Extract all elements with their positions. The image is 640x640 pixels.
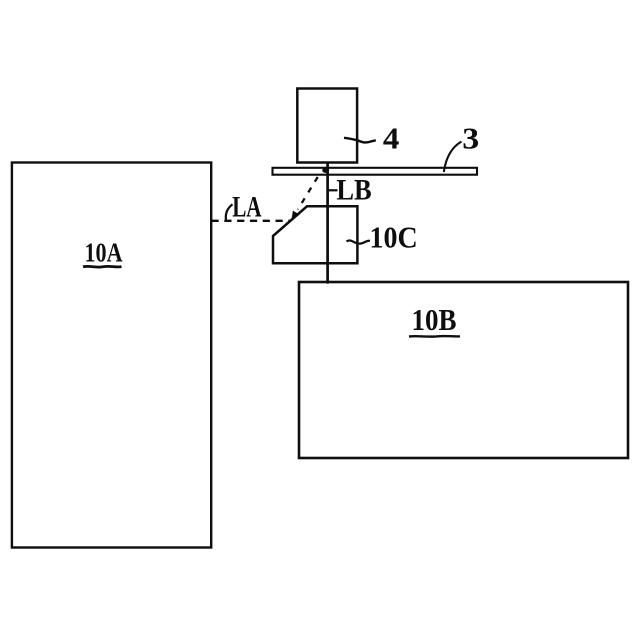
svg-text:4: 4 (383, 121, 400, 156)
svg-text:10C: 10C (370, 220, 418, 255)
svg-text:10A: 10A (85, 237, 123, 267)
tick for LB (329, 189, 338, 191)
junction dot on bar (322, 168, 329, 173)
prism 10C (273, 206, 357, 263)
underline of 10B (409, 335, 460, 338)
dashed beam LA horizontal (212, 220, 291, 222)
svg-text:10B: 10B (412, 302, 457, 337)
underline of 10A (83, 265, 122, 269)
arrowhead on diagonal beam (291, 211, 299, 221)
dashed beam diagonal (298, 177, 318, 210)
bar 3 (273, 168, 478, 175)
svg-text:LB: LB (336, 173, 371, 206)
leader squiggle for 10C (347, 240, 371, 243)
box 4 (detector) (297, 89, 357, 163)
leader curve for 3 (444, 142, 462, 173)
leader tick for LA (226, 204, 233, 221)
beam LB vertical line (326, 162, 329, 284)
svg-text:3: 3 (462, 121, 479, 156)
svg-text:LA: LA (232, 191, 262, 224)
box 10B (299, 282, 628, 458)
box 10A (12, 163, 211, 548)
leader squiggle for 4 (344, 138, 376, 143)
